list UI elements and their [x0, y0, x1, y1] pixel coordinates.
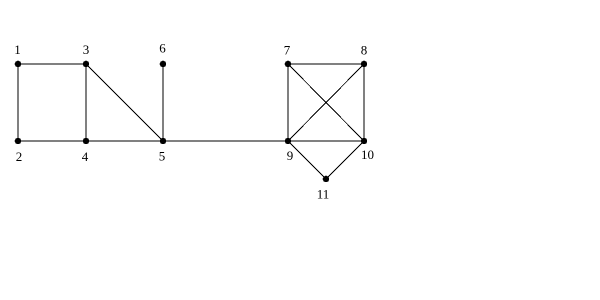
edge 3-4	[85, 64, 87, 141]
svg-text:10: 10	[361, 147, 374, 162]
node 11	[323, 176, 330, 183]
edge 9-11	[288, 141, 326, 179]
node 5	[160, 138, 167, 145]
edge 9-10	[288, 140, 364, 142]
svg-text:6: 6	[159, 41, 166, 56]
edge 4-5	[86, 140, 163, 142]
edge 10-11	[326, 141, 364, 179]
svg-text:4: 4	[82, 149, 89, 164]
edge 7-10	[288, 64, 364, 141]
edge 1-3	[18, 63, 86, 65]
edge 5-9	[163, 140, 288, 142]
edge 7-9	[287, 64, 289, 141]
svg-text:1: 1	[14, 42, 21, 57]
svg-text:9: 9	[287, 148, 294, 163]
node 6	[160, 61, 167, 68]
svg-text:8: 8	[361, 43, 368, 58]
svg-text:3: 3	[83, 42, 90, 57]
node 10	[361, 138, 368, 145]
node 2	[15, 138, 22, 145]
edge 2-4	[18, 140, 86, 142]
svg-text:5: 5	[159, 149, 166, 164]
node 8	[361, 61, 368, 68]
edge 8-10	[363, 64, 365, 141]
node 7	[285, 61, 292, 68]
node 9	[285, 138, 292, 145]
node 4	[83, 138, 90, 145]
svg-text:2: 2	[16, 149, 23, 164]
edge 7-8	[288, 63, 364, 65]
edge 3-5	[86, 64, 163, 141]
svg-text:7: 7	[284, 43, 291, 58]
svg-text:11: 11	[317, 187, 330, 202]
edge 6-5	[162, 64, 164, 141]
node 1	[15, 61, 22, 68]
edge 8-9	[288, 64, 364, 141]
node 3	[83, 61, 90, 68]
edge 1-2	[17, 64, 19, 141]
